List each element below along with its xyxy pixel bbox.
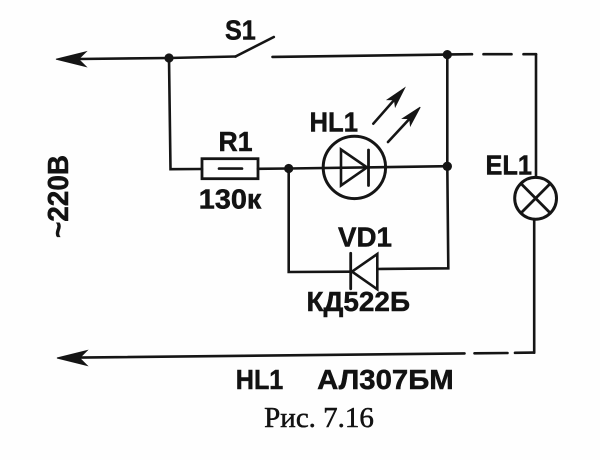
node C junction bbox=[284, 164, 293, 173]
svg-text:Рис. 7.16: Рис. 7.16 bbox=[264, 403, 374, 434]
svg-text:VD1: VD1 bbox=[338, 222, 392, 253]
wire: node C down to VD1 loop left side bbox=[289, 169, 351, 273]
svg-text:КД522Б: КД522Б bbox=[307, 286, 411, 317]
diode VD1 bbox=[351, 253, 378, 289]
wire: switch fixed contact to node B bbox=[273, 55, 448, 57]
wire: right vertical down to lamp EL1 bbox=[535, 54, 538, 177]
wire: node B to node D vertical bbox=[446, 55, 449, 167]
HL1 light arrow 2 bbox=[388, 107, 420, 142]
node B junction bbox=[443, 50, 452, 59]
svg-text:EL1: EL1 bbox=[486, 150, 533, 181]
HL1 light arrow 1 bbox=[373, 88, 404, 124]
mains arrow (top left) bbox=[56, 52, 86, 67]
svg-text:HL1: HL1 bbox=[236, 364, 283, 395]
wire: bottom rail to mains arrow bbox=[79, 353, 465, 357]
wire: node D down to VD1 loop right corner bbox=[377, 166, 448, 269]
wire top: arrow to node A bbox=[78, 58, 169, 59]
svg-text:~220В: ~220В bbox=[43, 155, 75, 238]
lamp EL1 bbox=[515, 177, 557, 219]
svg-text:S1: S1 bbox=[225, 14, 256, 45]
wire: lamp bottom vertical bbox=[533, 219, 536, 352]
svg-text:R1: R1 bbox=[219, 126, 253, 157]
wire: R1 to node C bbox=[258, 167, 289, 170]
LED HL1 bbox=[323, 136, 385, 198]
mains arrow (bottom left) bbox=[57, 351, 87, 366]
wire: node A to switch S1 pivot bbox=[169, 57, 236, 59]
wire (dashed): bottom right corner bbox=[475, 351, 535, 354]
svg-text:АЛ307БМ: АЛ307БМ bbox=[317, 364, 454, 395]
wire: node A down then right to R1 bbox=[169, 58, 202, 169]
resistor R1 bbox=[202, 159, 258, 179]
wire (dashed): node B to top-right corner bbox=[451, 53, 536, 56]
switch S1 blade bbox=[236, 37, 274, 57]
svg-text:HL1: HL1 bbox=[310, 107, 359, 138]
svg-text:130к: 130к bbox=[199, 184, 263, 215]
node D junction bbox=[443, 162, 452, 171]
wire: node C through LED to node D bbox=[289, 166, 448, 168]
node A junction bbox=[164, 53, 173, 62]
